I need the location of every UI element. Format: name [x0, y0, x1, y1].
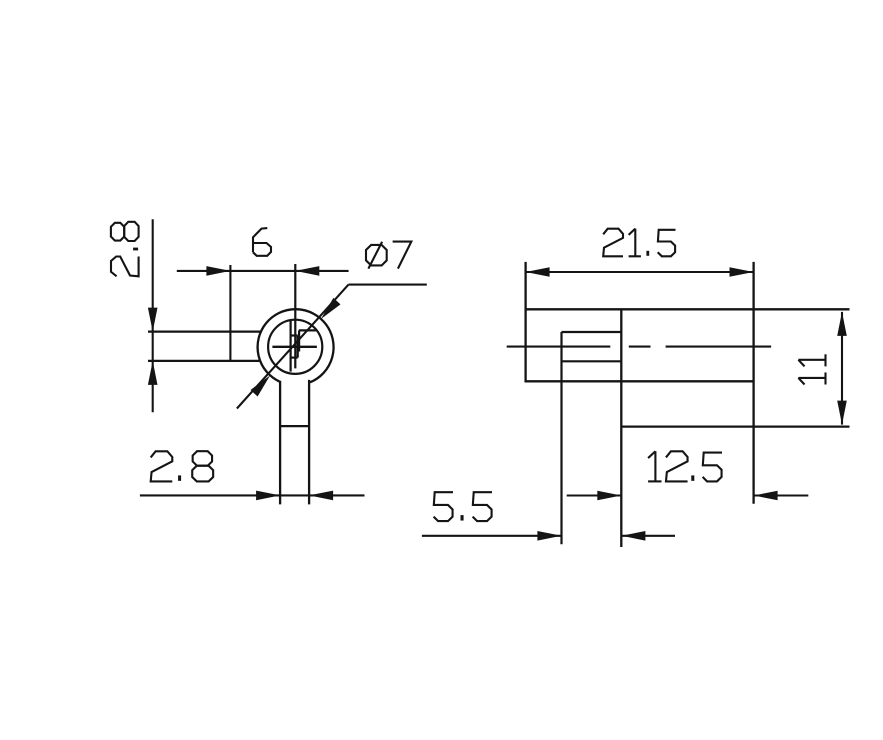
label 12.5	[648, 451, 722, 481]
step vertical inside hole	[298, 330, 300, 351]
ext line 6 left	[229, 265, 231, 362]
slot tick bottom	[290, 357, 298, 359]
arrow 21.5 left	[526, 267, 550, 277]
label 2.8 rotated	[111, 222, 139, 277]
dim line 2.8 vertical	[152, 219, 154, 412]
arrow 21.5 right	[730, 267, 754, 277]
label 5.5	[434, 492, 492, 521]
label 21.5	[603, 229, 675, 257]
dim line 11	[841, 312, 843, 425]
tube bottom edge / ext line	[148, 360, 260, 362]
stem step tick	[280, 425, 309, 427]
arrow 12.5 left	[597, 491, 621, 501]
step horizontal inside hole	[299, 329, 316, 331]
body bottom edge upper	[526, 380, 754, 382]
center crosshair horizontal	[272, 346, 317, 348]
arrow 2.8b left	[256, 491, 280, 501]
stem right edge	[308, 380, 310, 505]
dim line 12.5 right part	[754, 494, 809, 496]
arrow 6 left	[206, 266, 230, 276]
arrow 11 up	[837, 312, 847, 336]
lower bottom edge + ext line 11	[621, 425, 849, 427]
dim line 5.5 left part	[422, 535, 562, 537]
arrow 11 down	[837, 401, 847, 425]
arrowhead on circle lower-left	[251, 375, 271, 396]
hole inner circle o7	[268, 320, 322, 374]
centerline segment 2	[666, 346, 772, 348]
vertical divider / ext line	[620, 309, 622, 547]
o7 leader horizontal	[349, 284, 427, 286]
arrow 12.5 right	[754, 491, 778, 501]
tube top edge / ext line	[148, 330, 261, 332]
label 6	[253, 228, 271, 256]
extension line (6 dim) / slot right	[294, 264, 296, 368]
step left edge / ext 5.5	[560, 332, 562, 544]
step bottom edge	[562, 360, 622, 362]
arrow 2.8 up	[148, 361, 158, 385]
slot tick top	[290, 334, 298, 336]
centerline segment 1	[507, 346, 611, 348]
flange outer circle (arc, open at stem)	[258, 309, 334, 382]
slot inner edge	[297, 336, 299, 358]
o7 leader diagonal	[237, 285, 349, 409]
label o7	[366, 242, 411, 269]
arrow 2.8b right	[309, 491, 333, 501]
step top edge	[562, 331, 622, 333]
slot left edge	[290, 321, 292, 372]
stem left edge	[279, 381, 281, 505]
centerline dash	[629, 346, 651, 348]
arrow 5.5 left	[537, 531, 561, 541]
dim line 6	[177, 270, 349, 272]
label 11 rotated	[798, 354, 825, 384]
body left edge / ext 21.5	[524, 262, 526, 383]
dim line 5.5 right part	[621, 535, 675, 537]
dim line 12.5 left part	[567, 494, 622, 496]
arrowhead on circle upper-right	[321, 298, 341, 319]
arrow 6 right	[295, 266, 319, 276]
dim line 21.5	[526, 271, 754, 273]
arrow 2.8 down	[148, 308, 158, 332]
body top edge + ext line 11	[526, 308, 850, 310]
dim line 2.8 bottom	[140, 494, 365, 496]
body right edge / ext lines	[752, 262, 754, 504]
arrow 5.5 right	[621, 531, 645, 541]
label 2.8 bottom	[151, 451, 213, 481]
